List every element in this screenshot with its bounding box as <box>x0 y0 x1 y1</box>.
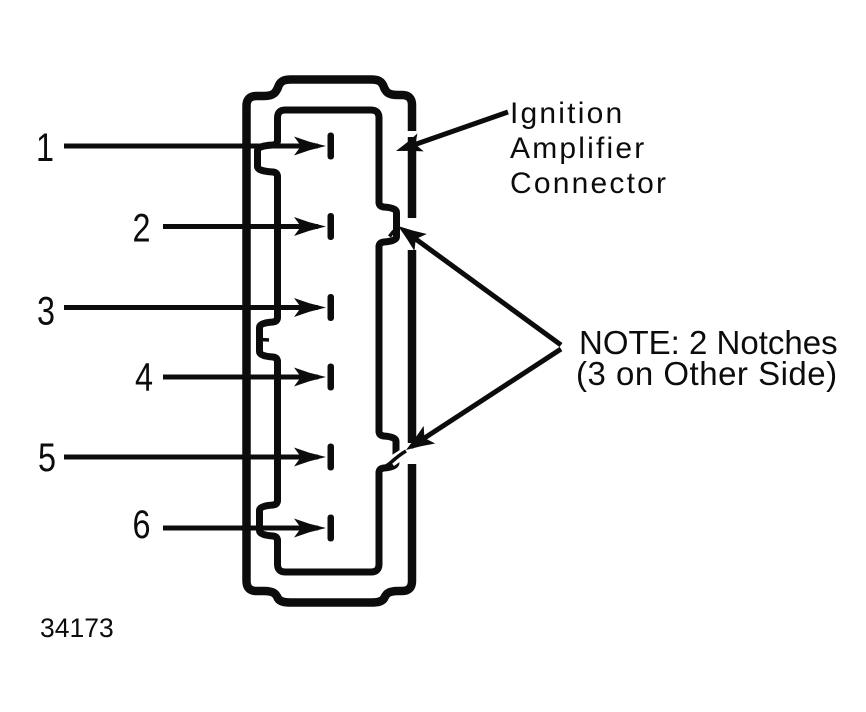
leader line to Ignition Amplifier Connector <box>405 112 508 148</box>
svg-text:6: 6 <box>133 503 151 547</box>
connector outer shell outline <box>247 80 413 603</box>
leader arrow to lower notch <box>411 349 561 447</box>
svg-text:Amplifier: Amplifier <box>510 132 647 165</box>
gap in shell at upper notch leader <box>405 218 420 250</box>
gap in shell at ignition leader <box>406 131 418 137</box>
gap in shell at lower notch leader <box>405 443 420 464</box>
wire arrow to pin 6 <box>163 526 318 531</box>
wire arrow to pin 2 <box>163 224 318 229</box>
pin 6 terminal <box>328 515 335 542</box>
tick inside middle left notch <box>261 338 269 342</box>
pin 2 terminal <box>328 213 335 240</box>
pin 1 terminal <box>328 133 335 160</box>
svg-text:34173: 34173 <box>40 613 114 643</box>
svg-text:Ignition: Ignition <box>510 97 624 130</box>
svg-text:Connector: Connector <box>510 167 668 200</box>
svg-text:4: 4 <box>135 356 153 400</box>
wire arrow to pin 5 <box>64 455 318 460</box>
pin 5 terminal <box>328 444 335 471</box>
leader arrow to upper notch <box>404 231 561 346</box>
wire arrow to pin 3 <box>64 305 318 310</box>
wire arrow to pin 4 <box>163 375 318 380</box>
svg-text:2: 2 <box>133 207 151 251</box>
wire arrow to pin 1 <box>64 144 318 149</box>
svg-text:5: 5 <box>38 436 56 480</box>
svg-text:(3 on Other Side): (3 on Other Side) <box>576 355 838 392</box>
connector inner cavity outline with notches <box>258 110 397 572</box>
pin 3 terminal <box>328 294 335 321</box>
svg-text:1: 1 <box>36 126 54 170</box>
white break where squiggle crosses notch wall <box>391 455 402 463</box>
svg-text:3: 3 <box>37 290 55 334</box>
pin 4 terminal <box>328 364 335 391</box>
